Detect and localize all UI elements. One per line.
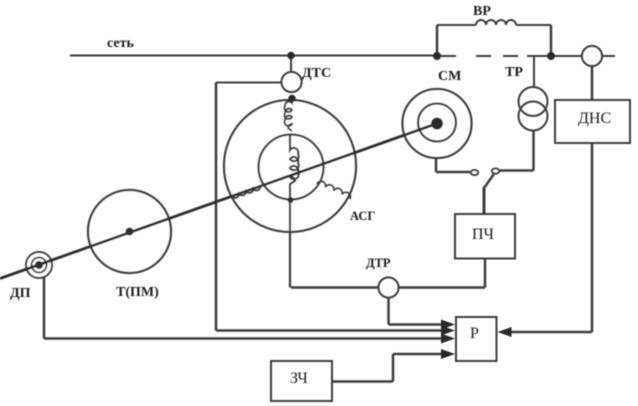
svg-text:ДТС: ДТС [302,66,331,81]
svg-text:ПЧ: ПЧ [472,226,494,243]
svg-text:ДНС: ДНС [578,110,611,127]
svg-text:сеть: сеть [107,36,134,51]
svg-text:АСГ: АСГ [350,209,375,223]
svg-text:ДП: ДП [10,286,31,301]
svg-text:Т(ПМ): Т(ПМ) [116,285,159,300]
svg-text:ВР: ВР [473,4,491,19]
svg-text:ДТР: ДТР [366,256,391,270]
svg-text:СМ: СМ [438,69,461,84]
svg-text:ТР: ТР [505,65,523,80]
svg-text:Р: Р [470,325,479,342]
svg-text:ЗЧ: ЗЧ [290,370,308,387]
